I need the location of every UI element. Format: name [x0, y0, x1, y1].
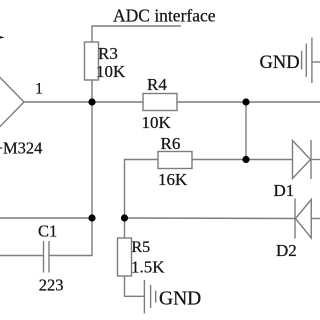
edge stub top-left wire — [0, 36, 5, 39]
svg-text:1.5K: 1.5K — [131, 258, 165, 277]
wire node D to D2 — [125, 217, 296, 220]
junction node A — [88, 98, 95, 105]
wire node C to R6 — [192, 159, 246, 161]
svg-text:1: 1 — [35, 81, 43, 98]
diode D2 — [296, 200, 312, 239]
wire node B to right edge — [246, 101, 320, 103]
D2 cathode bar — [294, 199, 296, 239]
junction node C — [242, 156, 249, 163]
wire node C to D1 — [246, 159, 293, 161]
feedback wire left edge to node E — [0, 217, 92, 219]
wire R4 to node B — [177, 101, 246, 103]
wire D1 to right edge — [311, 159, 320, 161]
svg-text:10K: 10K — [142, 113, 172, 132]
resistor R5 — [118, 238, 132, 276]
svg-text:GND: GND — [260, 53, 300, 73]
svg-text:D2: D2 — [276, 241, 297, 260]
wire R6 left down to node D — [125, 160, 159, 219]
ground symbol top right: bar medium — [305, 44, 307, 78]
svg-text:10K: 10K — [96, 62, 126, 81]
wire node B down to node C — [245, 102, 247, 160]
ground symbol top right: bar short — [301, 51, 303, 70]
junction node E — [88, 214, 95, 221]
ground symbol bottom: bar medium — [150, 285, 152, 308]
svg-text:ADC interface: ADC interface — [113, 6, 216, 26]
wire node E down to C1 — [49, 218, 92, 256]
junction node B — [242, 98, 249, 105]
wire node A down to node E — [91, 102, 93, 218]
wire R3 top to ADC interface — [92, 26, 181, 42]
svg-text:R5: R5 — [132, 239, 151, 256]
D1 cathode bar — [310, 140, 312, 179]
wire right edge to top ground — [312, 61, 320, 63]
wire node D down to R5 — [124, 218, 126, 238]
wire node A to R4 — [92, 101, 143, 103]
svg-text:M324: M324 — [3, 139, 42, 158]
wire D2 to right edge — [311, 218, 320, 220]
op-amp U1 — [0, 77, 24, 128]
wire op-amp output to node A — [24, 101, 92, 103]
svg-text:R4: R4 — [147, 75, 167, 94]
ground symbol bottom: bar short — [155, 291, 157, 303]
svg-text:16K: 16K — [158, 170, 188, 189]
resistor R3 — [85, 42, 99, 80]
resistor R6 — [158, 152, 192, 169]
svg-text:R6: R6 — [161, 134, 181, 153]
ground symbol bottom: bar tall — [143, 280, 145, 314]
svg-text:C1: C1 — [38, 222, 57, 241]
svg-text:D1: D1 — [274, 181, 295, 200]
resistor R4 — [143, 94, 177, 111]
svg-text:223: 223 — [39, 276, 64, 295]
edge stub at LM324 — [0, 147, 2, 149]
ground symbol top right: bar tall — [311, 38, 313, 84]
wire R5 bottom to ground — [125, 276, 145, 296]
junction node D — [121, 214, 128, 221]
capacitor C1 plate right — [48, 241, 50, 273]
wire C1 to left edge — [0, 255, 44, 257]
capacitor C1 plate left — [43, 241, 45, 273]
svg-text:R3: R3 — [98, 44, 118, 63]
svg-text:GND: GND — [159, 289, 201, 310]
diode D1 — [293, 141, 311, 179]
wire node A up to R3 — [91, 80, 93, 102]
